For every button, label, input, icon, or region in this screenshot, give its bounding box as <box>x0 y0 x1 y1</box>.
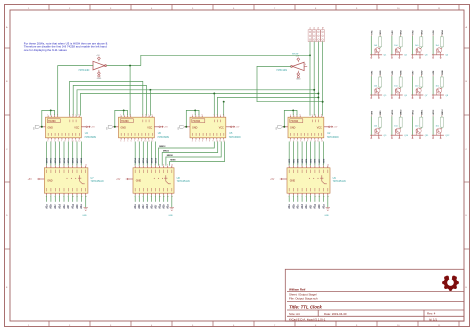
wire: connector column 3 down to IC U2 <box>317 42 319 116</box>
svg-text:9: 9 <box>213 140 214 142</box>
svg-text:A1h: A1h <box>163 204 166 209</box>
IC U5 top pins <box>192 116 194 118</box>
resistor R11 1k0 <box>420 117 423 127</box>
svg-text:GND: GND <box>121 127 127 130</box>
IC U6 left pin with global label <box>113 126 119 128</box>
wire cathode Q9 <box>370 116 372 135</box>
svg-text:P3: P3 <box>318 27 320 29</box>
wire cathode Q7 <box>412 76 414 95</box>
junction on U4 loop <box>50 109 52 111</box>
svg-text:1: 1 <box>290 114 291 116</box>
connector column 1 <box>308 30 312 42</box>
svg-text:8: 8 <box>151 114 152 116</box>
wire base feed Q9 <box>379 116 381 128</box>
svg-text:3: 3 <box>192 140 193 142</box>
svg-text:A1b: A1b <box>50 204 53 209</box>
wire MIN7 <box>76 142 78 166</box>
svg-text:MIN7: MIN7 <box>147 157 149 163</box>
IC U6 (74HC390N) body <box>119 117 155 138</box>
svg-text:Size: A4: Size: A4 <box>289 312 300 316</box>
resistor R10 1k0 <box>399 117 402 127</box>
text note (blue comment) <box>24 41 108 52</box>
wire cathode Q4 <box>432 36 434 55</box>
power pin GND of U3E <box>297 71 299 73</box>
IC U6 right pin to +5V <box>154 126 159 128</box>
wire base feed Q12 <box>441 116 443 128</box>
svg-text:A1e: A1e <box>63 204 66 209</box>
svg-text:4: 4 <box>124 140 125 142</box>
IC U2 left pin with global label <box>283 126 289 128</box>
svg-text:A1a: A1a <box>134 204 137 209</box>
resistor R2 1k0 <box>399 37 402 47</box>
IC U5 bottom pins <box>192 138 194 140</box>
transistor Q3 <box>416 48 421 53</box>
svg-text:74HC390N: 74HC390N <box>229 136 241 139</box>
svg-text:6: 6 <box>300 140 301 142</box>
emitter rail Q10 <box>391 134 403 136</box>
wire MIN3 <box>59 142 61 166</box>
svg-text:6: 6 <box>202 140 203 142</box>
transistor Q11 <box>416 128 421 133</box>
svg-text:7: 7 <box>148 114 149 116</box>
svg-text:8: 8 <box>223 114 224 116</box>
wire cathode Q8 <box>432 76 434 95</box>
svg-text:A1b: A1b <box>138 204 141 209</box>
svg-text:HR8: HR8 <box>323 158 325 163</box>
wire MIN11 <box>162 142 218 166</box>
transistor Q7 <box>416 88 421 93</box>
IC U9 (74HC4511N) body <box>287 168 330 193</box>
svg-text:4: 4 <box>130 114 131 116</box>
IC U5 left pin with global label <box>185 126 191 128</box>
svg-text:HR12: HR12 <box>433 109 435 115</box>
svg-text:1: 1 <box>192 114 193 116</box>
svg-text:9: 9 <box>167 164 168 166</box>
svg-text:12: 12 <box>78 140 80 142</box>
wire MIN2 <box>54 142 56 166</box>
svg-text:MIN10: MIN10 <box>167 155 174 157</box>
svg-text:GND: GND <box>290 127 296 130</box>
svg-text:8: 8 <box>307 140 308 142</box>
svg-text:HR5: HR5 <box>310 158 312 163</box>
svg-text:MIN0: MIN0 <box>46 157 48 163</box>
svg-text:4: 4 <box>57 114 58 116</box>
wire MIN12 <box>159 142 215 166</box>
svg-text:A1e: A1e <box>150 204 153 209</box>
emitter rail Q7 <box>411 94 423 96</box>
IC U9 output wires to segment labels <box>288 195 290 202</box>
svg-text:9: 9 <box>141 140 142 142</box>
svg-text:+5V: +5V <box>28 179 33 181</box>
resistor R4 1k0 <box>440 37 443 47</box>
emitter rail Q12 <box>432 134 444 136</box>
svg-text:MIN6: MIN6 <box>143 157 145 163</box>
wire: connector column 4 down to IC U2 <box>322 42 324 116</box>
svg-text:HR0: HR0 <box>289 158 291 163</box>
svg-text:8: 8 <box>209 140 210 142</box>
junction bus4 at col3 <box>317 93 319 95</box>
wire base feed Q8 <box>441 76 443 88</box>
IC U2 right pin to +5V <box>324 126 329 128</box>
wire base feed Q3 <box>420 36 422 48</box>
svg-text:5: 5 <box>142 114 143 116</box>
wire: connector column 1 down to IC U2 <box>309 42 311 116</box>
svg-text:A1d: A1d <box>58 204 61 209</box>
wire cathode Q1 <box>370 36 372 55</box>
svg-text:GND: GND <box>290 179 296 182</box>
svg-text:+5V: +5V <box>116 179 121 181</box>
title block frame <box>285 269 464 321</box>
svg-text:MIN8: MIN8 <box>81 157 83 163</box>
IC U9 bottom pins <box>288 193 290 195</box>
KiCad logo <box>442 276 459 291</box>
svg-text:+5V: +5V <box>270 179 275 181</box>
wire base feed Q5 <box>379 76 381 88</box>
svg-text:A1a: A1a <box>80 204 83 209</box>
svg-text:MIN4: MIN4 <box>63 157 66 163</box>
svg-text:A1f: A1f <box>67 205 70 209</box>
resistor R5 1k0 <box>379 77 382 87</box>
svg-text:GND: GND <box>168 215 173 217</box>
svg-text:A1a: A1a <box>288 204 291 209</box>
svg-text:7: 7 <box>61 140 62 142</box>
svg-text:+5V: +5V <box>235 127 239 129</box>
svg-text:11: 11 <box>148 140 150 142</box>
resistor R9 1k0 <box>379 117 382 127</box>
emitter rail Q4 <box>432 54 444 56</box>
svg-text:4: 4 <box>201 114 202 116</box>
svg-text:MIN8: MIN8 <box>151 157 153 163</box>
transistor Q2 <box>395 48 400 53</box>
wire HR5 <box>310 142 312 166</box>
svg-text:HR6: HR6 <box>315 158 317 163</box>
emitter rail Q6 <box>391 94 403 96</box>
svg-text:GND: GND <box>97 78 102 80</box>
junction on U3D output <box>129 65 131 67</box>
svg-text:6: 6 <box>145 114 146 116</box>
emitter rail Q11 <box>411 134 423 136</box>
wire cathode Q5 <box>370 76 372 95</box>
resistor R6 1k0 <box>399 77 402 87</box>
svg-text:7: 7 <box>159 164 160 166</box>
svg-text:HR7: HR7 <box>319 158 321 163</box>
svg-text:4: 4 <box>195 140 196 142</box>
svg-text:VCC: VCC <box>219 127 224 130</box>
wire bus line 2: U4 to U6 <box>73 85 146 115</box>
wire bus line 1: U4 output to U6 <box>70 81 143 115</box>
junction bus5 at col3 <box>317 96 319 98</box>
svg-text:12: 12 <box>321 140 323 142</box>
transistor Q12 <box>437 128 442 133</box>
svg-text:74HC14N: 74HC14N <box>78 69 89 72</box>
svg-text:P4: P4 <box>322 27 324 29</box>
IC U2 top pins <box>290 116 292 118</box>
svg-text:HC390: HC390 <box>48 120 56 123</box>
transistor Q6 <box>395 88 400 93</box>
svg-text:5: 5 <box>312 114 313 116</box>
svg-text:MIN9: MIN9 <box>170 160 176 162</box>
svg-text:VCC: VCC <box>317 127 322 130</box>
svg-text:MIN12: MIN12 <box>159 146 166 148</box>
IC U7 bottom pins <box>46 193 48 195</box>
junction at U6 left pin <box>114 126 116 128</box>
IC U4 left pin with global label <box>40 126 46 128</box>
IC U9 left pin to +5V <box>283 178 288 180</box>
resistor R12 1k0 <box>440 117 443 127</box>
wire HR3 <box>301 142 303 166</box>
svg-text:+5V: +5V <box>91 127 95 129</box>
svg-text:74HC14N: 74HC14N <box>276 69 287 72</box>
svg-text:A1g: A1g <box>72 204 75 209</box>
svg-text:5: 5 <box>214 114 215 116</box>
IC U8 output wires to segment labels <box>134 195 136 202</box>
svg-text:HC390: HC390 <box>193 120 201 123</box>
transistor Q5 <box>375 88 380 93</box>
wire drop bus6 into U5 <box>223 102 225 116</box>
svg-text:HR11: HR11 <box>413 109 415 115</box>
wire bus line 3: U4 to connector col2 <box>77 90 314 116</box>
IC U4 (74HC390N) body <box>46 117 82 138</box>
svg-text:File: Output Stage.sch: File: Output Stage.sch <box>289 297 318 301</box>
wire HR0 <box>288 142 290 166</box>
IC U5 right pin to +5V <box>226 126 231 128</box>
junction col4/inverter loop <box>322 101 324 103</box>
IC U7 left pin to +5V <box>40 178 45 180</box>
ground symbol below U9 <box>327 195 329 207</box>
svg-text:GND: GND <box>48 127 54 130</box>
connector column 3 <box>317 30 321 42</box>
wire cathode Q6 <box>391 76 393 95</box>
wire MIN6 <box>72 142 74 166</box>
wire: inverter U3D output to junction <box>107 65 141 67</box>
junction on U6 loop <box>123 109 125 111</box>
svg-text:74HC390N: 74HC390N <box>157 136 169 139</box>
svg-text:A1g: A1g <box>158 204 161 209</box>
svg-text:11: 11 <box>75 140 77 142</box>
transistor Q10 <box>395 128 400 133</box>
junction bus3 at U6 <box>149 89 151 91</box>
connector column 4 <box>321 30 325 42</box>
emitter rail Q2 <box>391 54 403 56</box>
svg-text:A1b: A1b <box>292 204 295 209</box>
svg-text:HR4: HR4 <box>305 158 308 163</box>
IC U8 top pins <box>134 166 136 168</box>
svg-text:6: 6 <box>315 114 316 116</box>
svg-text:HC390: HC390 <box>291 120 299 123</box>
svg-text:MIN5: MIN5 <box>139 157 141 163</box>
svg-text:5: 5 <box>199 140 200 142</box>
svg-text:Rev: 4: Rev: 4 <box>427 311 436 315</box>
wire base feed Q2 <box>400 36 402 48</box>
connector column 2 <box>312 30 316 42</box>
svg-text:A1c: A1c <box>54 204 57 209</box>
wire MIN4 <box>134 142 136 166</box>
svg-text:MN10: MN10 <box>401 109 403 115</box>
junction bus4 at U5 <box>213 93 215 95</box>
svg-text:4: 4 <box>305 64 306 66</box>
svg-text:7: 7 <box>206 140 207 142</box>
svg-text:GND: GND <box>296 79 301 81</box>
svg-text:MIN3: MIN3 <box>59 157 61 163</box>
wire MIN6 <box>142 142 144 166</box>
svg-text:A1h: A1h <box>318 204 321 209</box>
svg-text:5: 5 <box>69 114 70 116</box>
junction at U2 left pin <box>283 126 285 128</box>
wire cathode Q12 <box>432 116 434 135</box>
IC U7 (74HC4511N) body <box>44 168 88 193</box>
wire: connector column 2 down to IC U2 <box>313 42 315 116</box>
svg-text:HC390: HC390 <box>121 120 129 123</box>
IC U4 right pin to +5V <box>81 126 86 128</box>
emitter rail Q5 <box>370 94 382 96</box>
svg-text:A1c: A1c <box>142 204 145 209</box>
junction bus3 at col2 <box>313 89 315 91</box>
svg-text:7: 7 <box>304 140 305 142</box>
svg-text:A1d: A1d <box>301 204 304 209</box>
svg-text:Title: TTL Clock: Title: TTL Clock <box>289 305 322 310</box>
svg-text:HR3: HR3 <box>302 158 304 163</box>
svg-text:MIN6: MIN6 <box>73 157 75 163</box>
junction at U4 left pin <box>41 126 43 128</box>
svg-text:A1e: A1e <box>305 204 308 209</box>
wire bus line 4: U4 to connector col3 <box>80 94 318 116</box>
svg-text:10: 10 <box>327 164 329 166</box>
svg-text:VCC: VCC <box>147 127 152 130</box>
svg-text:74HC4511N: 74HC4511N <box>91 180 104 183</box>
wire MIN5 <box>67 142 69 166</box>
wire MIN1 <box>50 142 52 166</box>
svg-text:MN11: MN11 <box>421 109 423 115</box>
wire MIN9 <box>170 142 225 166</box>
svg-text:8: 8 <box>321 114 322 116</box>
wire MIN4 <box>63 142 65 166</box>
IC U2 (74HC390N) body <box>288 117 324 138</box>
svg-text:GND: GND <box>136 179 142 182</box>
svg-text:KiCad E.D.A. kicad (5.1.0)-1: KiCad E.D.A. kicad (5.1.0)-1 <box>289 317 326 321</box>
IC U8 bottom pins <box>134 193 136 195</box>
wire base feed Q11 <box>420 116 422 128</box>
svg-text:74HC390N: 74HC390N <box>84 136 96 139</box>
wire cathode Q10 <box>391 116 393 135</box>
svg-text:7: 7 <box>75 114 76 116</box>
svg-text:A1d: A1d <box>146 204 149 209</box>
svg-text:8: 8 <box>65 140 66 142</box>
svg-text:A1h: A1h <box>76 204 79 209</box>
wire HR1 <box>293 142 295 166</box>
svg-text:MIN11: MIN11 <box>163 151 170 153</box>
svg-text:HR2: HR2 <box>298 158 300 163</box>
svg-text:HR10: HR10 <box>392 109 394 115</box>
svg-text:1: 1 <box>47 114 48 116</box>
svg-text:10: 10 <box>85 164 87 166</box>
svg-text:William Reif: William Reif <box>289 287 305 291</box>
IC U4 top pins <box>47 116 49 118</box>
IC U9 top pins <box>288 166 290 168</box>
svg-text:MIN7: MIN7 <box>77 157 79 163</box>
svg-text:MN12: MN12 <box>442 109 444 115</box>
wire: U5 reset loop <box>186 110 199 126</box>
op-amp/inverter gate U3D 74HC14N <box>93 61 105 70</box>
svg-text:one for displaying the 9-11 va: one for displaying the 9-11 values <box>24 48 68 52</box>
svg-text:Date: 2019-04-30: Date: 2019-04-30 <box>324 312 347 316</box>
svg-text:3: 3 <box>290 140 291 142</box>
svg-text:A1g: A1g <box>314 204 317 209</box>
IC U5 (74HC390N) body <box>190 117 226 138</box>
wire MIN8 <box>80 142 82 166</box>
svg-text:P1: P1 <box>310 27 312 29</box>
svg-text:MIN2: MIN2 <box>55 157 57 163</box>
wire MIN5 <box>138 142 140 166</box>
svg-text:8: 8 <box>138 140 139 142</box>
wire drop bus4 into U5 <box>213 94 215 116</box>
wire bus line 5: U5 to connector col3 <box>217 97 318 115</box>
power pin +5V of U3D <box>97 57 100 60</box>
svg-text:P2: P2 <box>314 27 316 29</box>
emitter rail Q9 <box>370 134 382 136</box>
svg-text:A1c: A1c <box>297 204 300 209</box>
IC U2 bottom pins <box>290 138 292 140</box>
svg-text:6: 6 <box>217 114 218 116</box>
svg-text:8: 8 <box>79 114 80 116</box>
svg-text:74HC4511N: 74HC4511N <box>177 180 190 183</box>
wire: inverter U3D input from IC U4 top pin <box>58 66 93 116</box>
svg-text:VCC: VCC <box>74 127 79 130</box>
svg-text:10: 10 <box>144 140 146 142</box>
wire cathode Q11 <box>412 116 414 135</box>
svg-text:GND: GND <box>47 179 53 182</box>
wire drop bus3 into U6 <box>149 90 151 116</box>
transistor Q4 <box>437 48 442 53</box>
svg-text:A1f: A1f <box>154 205 157 209</box>
stub at U3E input <box>304 65 307 67</box>
emitter rail Q1 <box>370 54 382 56</box>
wire: U6 reset loop <box>115 110 128 126</box>
wire base feed Q4 <box>441 36 443 48</box>
svg-text:GND: GND <box>82 215 87 217</box>
svg-text:A1f: A1f <box>309 205 312 209</box>
wire: junction drop to IC U6 pin <box>129 66 131 116</box>
svg-text:+5V: +5V <box>333 127 337 129</box>
svg-text:3: 3 <box>47 140 48 142</box>
svg-text:5: 5 <box>127 140 128 142</box>
svg-text:A1a: A1a <box>45 204 48 209</box>
svg-text:4: 4 <box>299 114 300 116</box>
svg-text:6: 6 <box>72 114 73 116</box>
ground symbol below U8 <box>171 195 173 207</box>
svg-text:Id: 1/1: Id: 1/1 <box>429 317 437 321</box>
svg-text:HR1: HR1 <box>293 158 295 163</box>
svg-text:SHOW: SHOW <box>292 53 298 55</box>
junction at U5 left pin <box>185 126 187 128</box>
svg-text:MIN5: MIN5 <box>68 157 70 163</box>
svg-text:8: 8 <box>163 164 164 166</box>
transistor Q1 <box>375 48 380 53</box>
junction at connector column 1 <box>309 54 311 56</box>
resistor R1 1k0 <box>379 37 382 47</box>
svg-text:+5V: +5V <box>164 127 168 129</box>
power pin +5V of U3E <box>297 58 300 61</box>
wire HR6 <box>314 142 316 166</box>
IC U6 top pins <box>120 116 122 118</box>
ground symbol below U7 <box>85 195 87 207</box>
wire MIN10 <box>166 142 221 166</box>
transistor Q8 <box>437 88 442 93</box>
resistor R7 1k0 <box>420 77 423 87</box>
wire MIN8 <box>151 142 153 166</box>
wire: U3D output up and across to connector <box>141 55 310 65</box>
IC U7 output wires to segment labels <box>46 195 48 202</box>
junction on U2 loop <box>292 109 294 111</box>
